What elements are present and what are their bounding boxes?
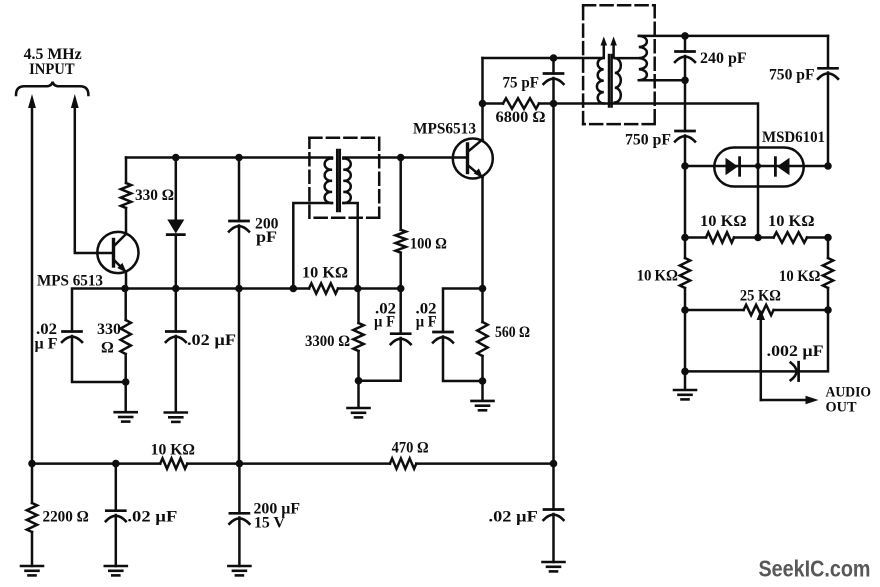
wire pot left drop (684, 310, 687, 371)
wire input line left (4.5 MHz input, lower leg) (28, 94, 36, 464)
label C5 uF (416, 314, 437, 331)
wire R15 wiper (757, 310, 765, 401)
wire R6 ground stem (357, 381, 360, 408)
node bottom rail / 200uF (236, 460, 244, 468)
label R7 6800 ohm (496, 109, 546, 126)
label C9 75 pF (503, 75, 540, 92)
dual diode U1 MSD6101 package (714, 148, 803, 187)
transformer T2 tertiary coil (615, 58, 621, 102)
svg-text:560 Ω: 560 Ω (495, 324, 530, 341)
wire emitter rail left (125, 287, 309, 290)
resistor R13 10 Kohm (left vertical) (680, 238, 690, 311)
node top rail / 200pF (235, 154, 243, 162)
wire detector ground stem (684, 371, 687, 389)
node R6 bottom (355, 377, 363, 385)
svg-text:750 pF: 750 pF (625, 132, 671, 149)
node T1 primary bottom / rail (290, 285, 298, 293)
label C7 .02 uF (127, 509, 177, 526)
node pot rail right (824, 306, 832, 314)
node emitter rail Q1 (121, 285, 129, 293)
svg-text:MPS 6513: MPS 6513 (37, 273, 103, 290)
label Q2 MPS6513 (413, 121, 476, 138)
label R6 3300 ohm (305, 333, 350, 350)
resistor R5 100 ohm (396, 158, 406, 289)
node 75pF bottom (550, 100, 558, 108)
label AUDIO (826, 385, 872, 401)
svg-text:µ F: µ F (416, 314, 437, 331)
svg-text:3300 Ω: 3300 Ω (305, 333, 350, 350)
svg-text:µ F: µ F (374, 314, 395, 331)
svg-text:330 Ω: 330 Ω (135, 187, 174, 204)
wire right detector riser upper (827, 36, 830, 68)
resistor R6 3300 ohm (353, 289, 363, 381)
transformer T1 core (337, 150, 340, 211)
label C10 240 pF (700, 50, 747, 67)
node secondary top / 240pF (681, 32, 689, 40)
resistor R2 330 ohm (Q1 emitter) (121, 289, 131, 383)
label C4 uF (374, 314, 395, 331)
capacitor C13 .002 uF (791, 362, 799, 380)
svg-text:10 KΩ: 10 KΩ (768, 213, 815, 230)
node Q2 base / 100 ohm (397, 154, 405, 162)
wire right detector riser lower (827, 73, 830, 167)
transformer T1 dashed box (309, 138, 379, 218)
label R11 10 Kohm (700, 213, 747, 230)
node Q2 collector / 6800 ohm (479, 100, 487, 108)
capacitor C8 .02 uF (B+ bypass) (544, 464, 564, 562)
resistor R4 10 Kohm (emitter rail series) (309, 283, 338, 293)
resistor R7 6800 ohm (483, 98, 554, 108)
wire Q2 emitter to C5 (443, 289, 483, 333)
wire MSD right lead (804, 165, 828, 168)
svg-text:2200 Ω: 2200 Ω (43, 509, 89, 526)
node network rail right (824, 234, 832, 242)
svg-text:10 KΩ: 10 KΩ (302, 265, 348, 282)
capacitor C2 .02 uF (diode load) (166, 289, 186, 413)
label R4 10 Kohm (302, 265, 348, 282)
wire T2 secondary top rail (639, 35, 828, 38)
wire bottom rail segment 3 (416, 462, 553, 465)
node MSD left (681, 162, 689, 170)
wire left detector riser lower (684, 136, 687, 167)
wire top rail collector (126, 156, 332, 159)
svg-text:100 Ω: 100 Ω (410, 236, 447, 253)
ground G1 (21, 566, 43, 575)
wire C5 bottom (443, 337, 483, 382)
wire input line right to Q1 base (71, 94, 114, 253)
diode U1b (775, 158, 789, 176)
label C1 uF (35, 336, 58, 353)
wire Q1 collector riser (125, 208, 128, 234)
wire Q2 collector riser (481, 58, 484, 140)
node MSD center (755, 163, 761, 169)
svg-text:15 V: 15 V (254, 515, 285, 532)
transformer T2 dashed box (583, 5, 655, 124)
capacitor C9 75 pF (544, 58, 564, 104)
capacitor C10 240 pF (675, 36, 695, 80)
svg-text:10 KΩ: 10 KΩ (151, 442, 196, 459)
resistor R3 10 Kohm (bottom rail) (160, 458, 187, 468)
svg-text:240 pF: 240 pF (700, 50, 747, 67)
ground G8 (472, 401, 494, 410)
label OUT (826, 400, 857, 416)
label C12 750 pF (769, 67, 815, 84)
transformer T2 tuning arrows (601, 37, 617, 58)
transformer T2 core (609, 55, 612, 107)
wire T1 primary bottom return (293, 203, 332, 289)
svg-text:MPS6513: MPS6513 (413, 121, 476, 138)
node R8 bottom (479, 377, 487, 385)
node 75pF top (550, 54, 558, 62)
label C8 .02 uF (489, 509, 539, 526)
wire .002 uF run left (685, 370, 796, 373)
capacitor C11 750 pF (left) (675, 131, 695, 142)
ground G6 (165, 413, 187, 422)
label R9 470 ohm (392, 440, 429, 457)
wire bottom rail segment 1 (32, 462, 160, 465)
capacitor C6 200 uF 15 V (229, 464, 249, 566)
svg-text:.002 µF: .002 µF (767, 343, 824, 360)
label C6 15 V (254, 515, 285, 532)
wire Q2 collector to T2 primary top (483, 57, 604, 60)
label R14 10 Kohm (779, 268, 821, 285)
svg-text:10 KΩ: 10 KΩ (637, 268, 679, 285)
svg-text:µ F: µ F (35, 336, 58, 353)
svg-text:470 Ω: 470 Ω (392, 440, 429, 457)
label C3 pF (256, 229, 277, 246)
resistor R10 2200 ohm (27, 464, 37, 566)
label C4 .02 (375, 301, 396, 318)
node R2 bottom (122, 378, 130, 386)
ground G7 (348, 408, 370, 417)
node MSD right (824, 162, 832, 170)
label R3 10 Kohm (151, 442, 196, 459)
ground G3 (228, 566, 250, 575)
label C3 200 (255, 216, 279, 233)
resistor R1 330 ohm (collector load) (121, 158, 131, 209)
node bottom rail / B+ riser (550, 460, 558, 468)
node pot rail left (681, 306, 689, 314)
label C5 .02 (416, 301, 437, 318)
wire T2 secondary bottom (639, 79, 685, 82)
ground G9 (674, 390, 696, 399)
potentiometer R15 25 Kohm rail (685, 305, 828, 315)
capacitor C1 .02 uF (Q1 emitter) (62, 332, 82, 343)
wire MSD internal (714, 165, 803, 168)
label R1 330 ohm (135, 187, 174, 204)
transformer T2 primary coil (597, 58, 604, 104)
label R5 100 ohm (410, 236, 447, 253)
resistor R8 560 ohm (477, 289, 487, 382)
svg-text:OUT: OUT (826, 400, 857, 416)
node T1 secondary bottom / rail (354, 285, 362, 293)
label C13 .002 uF (767, 343, 824, 360)
svg-text:6800 Ω: 6800 Ω (496, 109, 546, 126)
node bottom rail / C7 (112, 460, 120, 468)
wire Q1 emitter bypass loop bottom (72, 336, 126, 382)
svg-text:25 KΩ: 25 KΩ (740, 288, 781, 305)
transformer T2 secondary coil (639, 36, 647, 80)
label R15 25 Kohm (740, 288, 781, 305)
ground G4 (543, 562, 565, 571)
node network rail left (681, 234, 689, 242)
wire network top rail + R11 R12 10 Kohm (685, 232, 828, 242)
label R2 330 (97, 321, 121, 338)
ground G5 (115, 412, 137, 421)
node emitter rail / D1 (172, 285, 180, 293)
node bottom rail input (28, 460, 36, 468)
wire T1 secondary bottom return (343, 203, 357, 289)
capacitor C5 .02 uF (Q2 emitter) (433, 332, 453, 343)
label R10 2200 ohm (43, 509, 89, 526)
label C11 750 pF (625, 132, 671, 149)
diode D1 (167, 158, 184, 289)
svg-text:Ω: Ω (101, 340, 114, 357)
transistor Q2 MPS6513 (453, 139, 493, 179)
capacitor C4 .02 uF (Q2 base bypass) (359, 289, 411, 381)
wire MSD left lead (685, 165, 714, 168)
node secondary bottom / 240pF (681, 77, 689, 85)
node emitter rail / 100 ohm (397, 285, 405, 293)
svg-text:.02 µF: .02 µF (127, 509, 177, 526)
svg-text:75 pF: 75 pF (503, 75, 540, 92)
wire T1 secondary top to Q2 base (343, 156, 467, 159)
node label 4.5 MHz (24, 46, 82, 63)
wire Q1 emitter bypass loop top (72, 289, 125, 332)
transistor Q1 MPS 6513 (97, 232, 138, 289)
capacitor C3 200 pF (229, 158, 249, 289)
svg-text:SeekIC.com: SeekIC.com (759, 556, 871, 582)
wire T2 tertiary tap (615, 57, 639, 60)
label R12 10 Kohm (768, 213, 815, 230)
node Q2 emitter (479, 285, 487, 293)
svg-text:MSD6101: MSD6101 (762, 129, 825, 146)
capacitor C12 750 pF (right) (818, 68, 838, 79)
watermark SeekIC.com (759, 556, 871, 582)
label Q1 MPS 6513 (37, 273, 103, 290)
wire R8 ground stem (481, 381, 484, 401)
wire bottom rail segment 2 (187, 462, 390, 465)
svg-text:AUDIO: AUDIO (826, 385, 872, 401)
wire emitter rail right (338, 287, 401, 290)
svg-text:pF: pF (256, 229, 277, 246)
node network rail center (754, 234, 762, 242)
ground G2 (105, 566, 127, 575)
label C2 .02 uF (187, 332, 236, 349)
wire left chain to network rail (684, 166, 687, 238)
svg-text:750 pF: 750 pF (769, 67, 815, 84)
capacitor C7 .02 uF (rail bypass) (106, 464, 126, 566)
wire audio out (761, 396, 819, 405)
label R13 10 Kohm (637, 268, 679, 285)
svg-text:10 KΩ: 10 KΩ (700, 213, 747, 230)
wire B+ riser (552, 104, 555, 464)
svg-text:330: 330 (97, 321, 121, 338)
label U1 MSD6101 (762, 129, 825, 146)
brace input (16, 82, 88, 95)
wire .002 uF run right (799, 310, 828, 371)
wire 200pF riser to bottom rail (238, 289, 241, 464)
node top rail / diode (172, 154, 180, 162)
wire R2 ground stem (124, 382, 127, 412)
node emitter rail / 200pF riser (235, 285, 243, 293)
svg-text:INPUT: INPUT (29, 61, 75, 78)
label C6 200 uF (254, 501, 301, 518)
transformer T1 secondary coil (343, 159, 350, 204)
transformer T1 primary coil (325, 159, 332, 204)
node label INPUT (29, 61, 75, 78)
wire T2 bottom return to detector center (554, 104, 759, 238)
wire Q2 emitter riser (481, 178, 484, 289)
svg-text:.02 µF: .02 µF (187, 332, 236, 349)
svg-text:.02 µF: .02 µF (489, 509, 539, 526)
wire left detector riser upper (684, 80, 687, 131)
label R2 ohm (101, 340, 114, 357)
svg-text:10 KΩ: 10 KΩ (779, 268, 821, 285)
label R8 560 ohm (495, 324, 530, 341)
node ground node detector (681, 368, 689, 376)
label C1 .02 (36, 321, 57, 338)
diode U1a (726, 158, 740, 176)
resistor R14 10 Kohm (right vertical) (823, 238, 833, 311)
resistor R9 470 ohm (390, 458, 416, 468)
